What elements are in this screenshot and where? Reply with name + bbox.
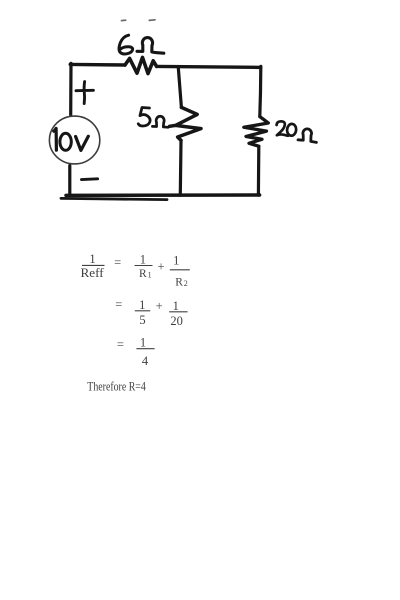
resistor R 6ohm zigzag (top) xyxy=(125,57,157,73)
voltage source V1 circle xyxy=(49,116,99,164)
wire: top left horizontal segment xyxy=(70,63,125,67)
fraction bar 4 xyxy=(136,348,154,350)
svg-text:Therefore R=4: Therefore R=4 xyxy=(87,378,146,393)
fraction bar 5 xyxy=(135,310,150,312)
label omega (6 ohm) xyxy=(137,38,164,54)
wire: top right horizontal segment xyxy=(157,66,261,67)
fraction bar R1 xyxy=(135,265,153,267)
label 5 (5 ohm) xyxy=(138,108,150,127)
svg-text:1: 1 xyxy=(173,299,179,313)
stray dash mark 2 xyxy=(149,19,155,22)
label omega (20 ohm) xyxy=(298,129,316,143)
wire: left vertical (source top lead) xyxy=(69,63,73,114)
fraction bar Reff xyxy=(82,264,105,266)
wire: bottom overlap stroke xyxy=(61,198,167,199)
svg-text:1: 1 xyxy=(140,335,146,349)
svg-text:4: 4 xyxy=(142,354,149,368)
svg-text:1: 1 xyxy=(140,252,146,266)
svg-text:R: R xyxy=(139,268,147,280)
wire: left vertical (source bottom lead) xyxy=(68,166,71,196)
label omega (5 ohm) xyxy=(152,116,168,127)
fraction bar 20 xyxy=(169,311,187,313)
svg-text:1: 1 xyxy=(139,298,145,312)
plus sign polarity xyxy=(76,82,93,104)
svg-text:1: 1 xyxy=(148,270,152,279)
svg-text:R: R xyxy=(175,276,183,288)
svg-text:5: 5 xyxy=(139,313,145,327)
svg-text:=: = xyxy=(115,297,122,311)
svg-text:+: + xyxy=(157,260,164,274)
label 10v letter v xyxy=(76,136,89,150)
svg-text:20: 20 xyxy=(170,314,183,328)
stray dash mark 1 xyxy=(122,19,126,21)
label 10v digit 1 xyxy=(54,128,57,150)
wire: middle branch lower xyxy=(179,140,183,195)
wire: right branch lower xyxy=(257,146,261,195)
svg-text:1: 1 xyxy=(89,252,95,266)
resistor R 5ohm zigzag (middle) xyxy=(170,107,201,140)
svg-text:Reff: Reff xyxy=(81,266,105,280)
wire: right branch upper xyxy=(260,66,261,116)
fraction bar R2 xyxy=(170,269,190,271)
label 10v digit 0 xyxy=(60,133,71,150)
svg-text:=: = xyxy=(117,337,124,351)
svg-text:2: 2 xyxy=(184,279,188,288)
label 0 (20 ohm) xyxy=(287,123,297,136)
minus sign polarity xyxy=(82,177,98,181)
svg-text:1: 1 xyxy=(173,253,179,267)
label 6 (6 ohm) xyxy=(119,35,133,54)
svg-text:=: = xyxy=(114,255,121,269)
svg-text:+: + xyxy=(156,299,163,313)
label 2 (20 ohm) xyxy=(277,121,288,136)
wire: bottom horizontal xyxy=(66,193,260,197)
resistor R 20ohm zigzag (right) xyxy=(244,117,268,147)
wire: middle branch upper xyxy=(178,68,181,108)
